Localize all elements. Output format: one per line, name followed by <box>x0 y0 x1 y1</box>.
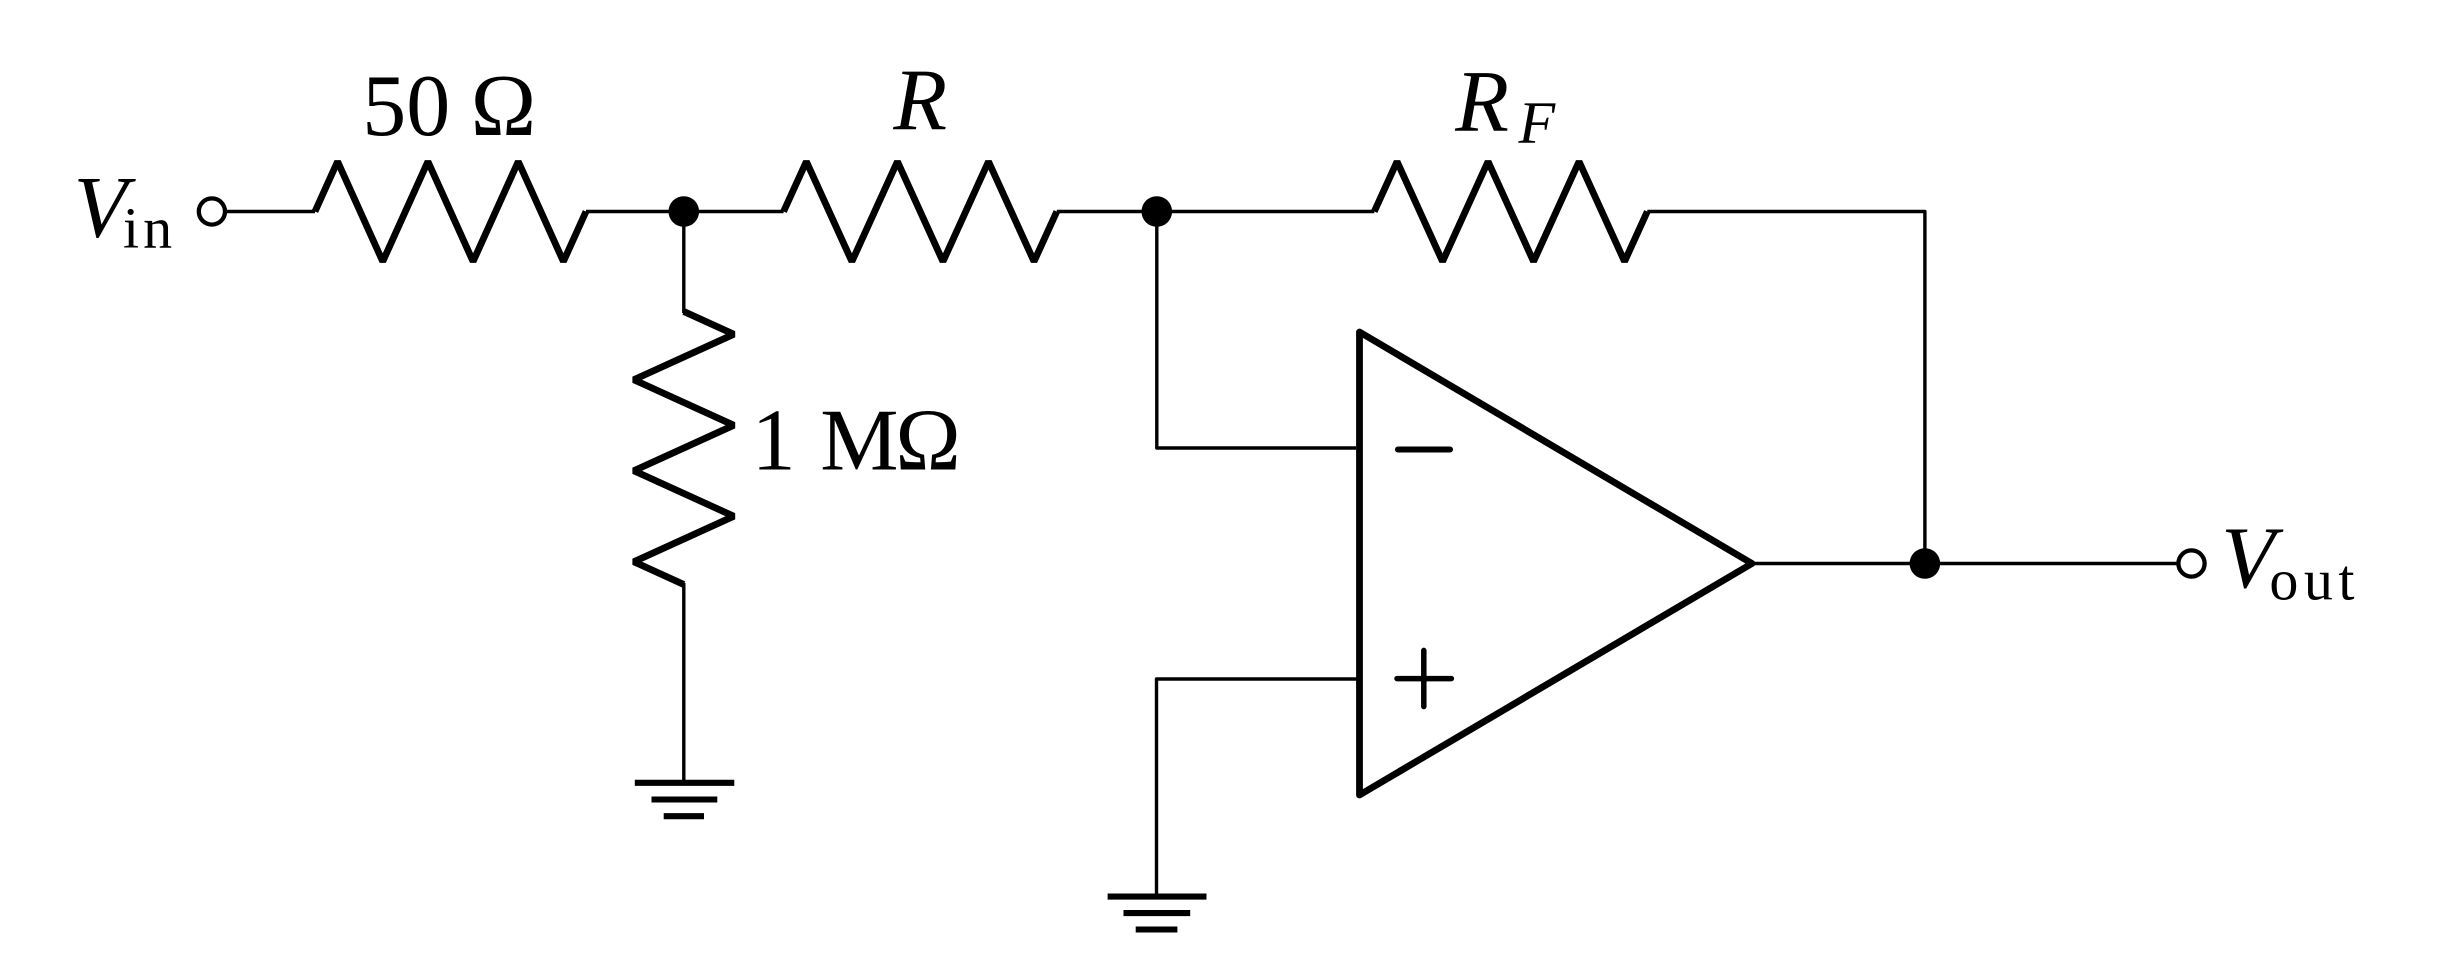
node output junction dot <box>1910 548 1941 579</box>
op-amp noninverting pin plus sign <box>1397 650 1451 706</box>
svg-text:M: M <box>820 392 898 489</box>
svg-text:out: out <box>2269 547 2360 612</box>
svg-text:1: 1 <box>752 392 796 489</box>
node B junction dot (inverting input node) <box>1142 196 1173 227</box>
svg-text:Ω: Ω <box>895 392 960 489</box>
svg-text:in: in <box>123 196 176 261</box>
wire <box>684 210 784 213</box>
label RF <box>1454 54 1556 156</box>
svg-text:Ω: Ω <box>471 58 536 155</box>
value label 1 MΩ <box>752 392 961 489</box>
svg-text:50: 50 <box>362 58 450 155</box>
resistor RF feedback <box>1374 162 1647 262</box>
wire <box>1057 210 1157 213</box>
label Vout <box>2221 510 2360 612</box>
ground symbol GND2 (noninverting input) <box>1108 897 1207 930</box>
svg-text:R: R <box>1454 54 1509 151</box>
op-amp inverting pin minus sign <box>1398 446 1450 452</box>
label Vin <box>74 159 177 260</box>
ground symbol GND1 (1MΩ) <box>635 783 735 816</box>
wire output <box>1754 562 2179 565</box>
wire 1MΩ down to ground <box>682 583 685 781</box>
wire feedback top and right side <box>1647 212 1925 564</box>
svg-text:F: F <box>1518 90 1557 156</box>
terminal Vin <box>199 198 225 224</box>
terminal Vout <box>2178 550 2204 576</box>
wire noninverting input (left and down to ground) <box>1157 679 1360 894</box>
wire input <box>227 210 315 213</box>
resistor R2 1MΩ (vertical) <box>634 312 734 585</box>
resistor R1 50Ω <box>315 162 586 262</box>
wire node A down to 1MΩ <box>682 226 685 313</box>
op-amp U1 triangle <box>1360 332 1753 795</box>
wire <box>1157 210 1375 213</box>
wire inverting input (node B down and right to op-amp) <box>1157 226 1356 448</box>
wire <box>586 210 684 213</box>
node A junction dot <box>669 196 700 227</box>
resistor R <box>784 162 1057 262</box>
svg-text:R: R <box>892 52 947 149</box>
value label 50 Ω <box>362 58 536 155</box>
